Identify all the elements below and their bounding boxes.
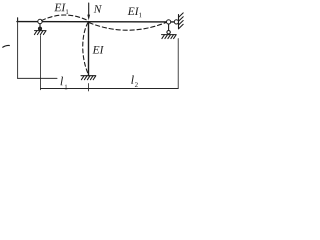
label EI1 (right span)	[128, 7, 142, 17]
label l1	[61, 77, 68, 90]
left support ground line	[35, 30, 47, 32]
label l2	[131, 75, 137, 87]
vertical dimension line for l (left)	[17, 22, 19, 79]
right support ground line	[162, 34, 177, 36]
load arrow N	[88, 3, 90, 16]
column base hatching	[81, 76, 95, 80]
label EI1 (left span)	[54, 4, 68, 14]
dashed deflection curve of right span (EI1)	[89, 22, 167, 30]
column fixed base line	[81, 75, 96, 77]
extension line from right support to dimension line	[177, 39, 179, 89]
left dimension extension tick above beam	[17, 18, 19, 22]
label N	[94, 5, 102, 13]
hinge circle at left support	[38, 19, 42, 23]
hinge circle at wall link	[174, 20, 178, 24]
right support ground hatching	[162, 35, 176, 39]
label l (rotated, left dimension)	[3, 45, 10, 47]
label EI (column)	[92, 46, 103, 54]
bottom dimension line for l1 and l2	[41, 88, 179, 90]
right wall hatching	[179, 13, 184, 29]
base horizontal line at bottom of l dimension	[18, 77, 57, 79]
extension line below left support down to dimension line	[40, 36, 42, 90]
dashed deflection curve of column (EI)	[83, 23, 88, 74]
column (vertical member)	[88, 22, 90, 76]
left support lower hinge	[39, 27, 42, 30]
hinge circle at right beam end	[167, 20, 171, 24]
left support ground hatching	[34, 31, 46, 35]
extension tick below column base crossing dimension line	[88, 84, 90, 92]
left support stem	[39, 24, 41, 28]
beam (top horizontal member)	[17, 21, 177, 23]
dashed deflection curve of left span (EI1)	[42, 15, 88, 21]
right support lower hinge	[167, 31, 170, 34]
right support stem	[168, 24, 170, 31]
right wall line	[178, 15, 180, 29]
